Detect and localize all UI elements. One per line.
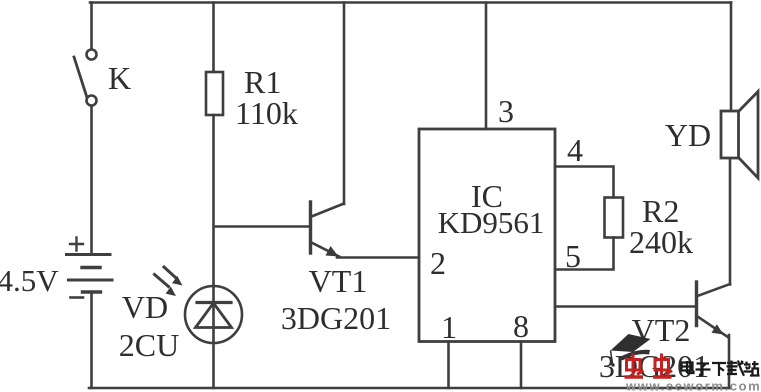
wire IC to VT2 base (555, 305, 695, 308)
wire VT1 collector up (343, 3, 346, 205)
svg-text:KD9561: KD9561 (438, 205, 545, 240)
svg-text:4.5V: 4.5V (0, 263, 59, 298)
wire R1 to VD (212, 115, 215, 287)
watermark red character chong 1 (625, 354, 644, 378)
watermark text dianzi xiazaizhan (682, 361, 760, 377)
svg-text:3: 3 (498, 93, 514, 129)
svg-text:2: 2 (430, 245, 446, 281)
svg-text:110k: 110k (235, 95, 298, 131)
wire IC pin8 to bottom rail (520, 342, 523, 389)
watermark graduation cap logo (611, 334, 651, 367)
wire left drop to switch (90, 3, 93, 50)
transistor VT1 (311, 202, 345, 257)
svg-text:5: 5 (565, 238, 581, 274)
IC U1 KD9561 box (419, 129, 555, 342)
speaker YD (721, 92, 758, 179)
wire R1 branch top (212, 3, 215, 73)
wire IC pin4 stub (555, 167, 614, 198)
watermark red character chong 2 (653, 354, 672, 378)
wire IC pin3 (485, 3, 488, 130)
svg-text:8: 8 (513, 308, 529, 344)
svg-text:K: K (108, 60, 131, 96)
wire VT2 emitter to bottom rail (728, 335, 731, 388)
switch K (74, 50, 97, 106)
photodiode VD (185, 286, 242, 388)
wire top rail (90, 1, 731, 4)
battery 4.5V (67, 238, 113, 389)
svg-text:VD: VD (122, 289, 168, 325)
light arrows into VD (155, 267, 183, 296)
svg-text:3DG201: 3DG201 (281, 300, 391, 336)
wire bottom rail (89, 387, 730, 390)
wire switch to battery (90, 106, 93, 253)
transistor VT2 (697, 282, 731, 338)
svg-text:2CU: 2CU (119, 327, 179, 363)
svg-text:www.eeworm.com: www.eeworm.com (625, 379, 761, 392)
svg-text:VT1: VT1 (309, 263, 368, 299)
wire VT2 collector to speaker (729, 159, 732, 285)
resistor R2 (605, 198, 624, 238)
resistor R1 (206, 72, 223, 115)
svg-text:1: 1 (441, 309, 457, 345)
wire R2 to IC pin5 (555, 238, 614, 270)
wire IC pin1 to bottom rail (447, 342, 450, 389)
wire VT1 emitter to IC pin2 (337, 256, 419, 259)
wire base junction to VT1 (214, 225, 309, 228)
wire top right drop to speaker (730, 3, 733, 112)
svg-text:4: 4 (567, 132, 583, 168)
svg-text:240k: 240k (629, 224, 693, 260)
svg-text:YD: YD (665, 117, 711, 153)
